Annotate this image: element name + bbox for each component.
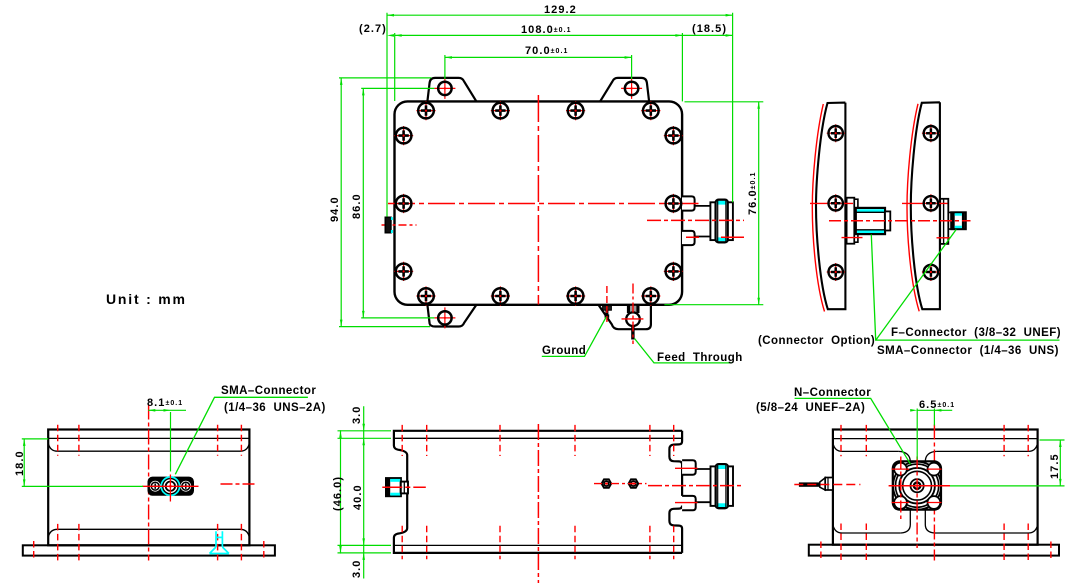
N connector (bottom view) ears [682,460,696,474]
svg-text:SMA–Connector: SMA–Connector [221,385,316,397]
flange corner bolt circles [894,463,940,509]
corner wedge fills [893,461,941,510]
F-connector option body outline [816,103,845,310]
svg-text:3.0: 3.0 [351,560,363,578]
svg-text:(18.5): (18.5) [692,23,727,35]
svg-text:(2.7): (2.7) [359,23,387,35]
hex screws [602,479,612,487]
centerline vertical [537,95,539,305]
OPTVIEWS [810,102,1060,340]
SMA pin left side [799,482,820,486]
dim 18.0 [22,410,186,486]
lid screws bottom row [416,286,435,305]
right edge with notches [669,431,682,553]
hidden screw holes top [34,425,264,561]
mounting tab bottom-left [427,305,476,327]
svg-text:(5/8–24 UNEF–2A): (5/8–24 UNEF–2A) [756,402,865,414]
N connector ear2 stub [686,236,744,238]
hidden hole lines top [402,425,674,559]
base flange [23,545,275,555]
SMA center cyan ring [161,477,179,495]
bottom view outline [394,431,682,553]
svg-text:86.0: 86.0 [351,193,363,219]
N connector centerline (bottom) [648,485,741,487]
bottom seam [833,525,1038,533]
svg-text:18.0: 18.0 [14,450,26,476]
SMA stub (left, rear of connector) [385,217,391,232]
inner top line [394,437,682,439]
svg-text:Unit : mm: Unit : mm [106,291,187,307]
inner bottom line [394,544,682,546]
mounting tab top-right [600,78,649,102]
connector crosshair [142,485,199,487]
N connector ear 1 [682,196,695,210]
body front view [48,430,249,546]
dim 6.5 [917,409,1064,486]
ground lug [603,306,612,310]
leader Feed Through [635,339,733,363]
F-connector tip [885,211,890,230]
centerline horizontal [388,203,697,205]
F-option red profile arc [812,104,824,312]
N connector ring1 [710,202,715,240]
SMA connector (bottom view) [386,478,401,496]
svg-text:(46.0): (46.0) [332,476,344,511]
hidden screw holes [821,425,1051,561]
bottom seam [48,529,249,537]
svg-text:17.5: 17.5 [1049,453,1061,479]
lid seam upper [48,437,249,439]
SMA-option screws [922,124,940,142]
SMA connector flange [940,199,948,244]
TOPVIEW [339,13,763,363]
mounting tab top-left [427,78,476,102]
svg-text:F–Connector (3/8–32 UNEF): F–Connector (3/8–32 UNEF) [891,327,1061,339]
N connector rings/barrel (bottom view) [711,466,716,506]
N connector centerline [647,219,744,221]
svg-text:N–Connector: N–Connector [794,387,871,399]
vertical centerline body [933,425,935,561]
dim 129.2 [339,13,763,327]
dims 46/40/3 [338,406,392,578]
F-option screws [827,124,845,142]
BOTTOMVIEW [338,406,742,583]
center circles [911,479,924,492]
svg-text:3.0: 3.0 [351,406,363,424]
tab hole top-right [621,78,642,99]
SMA stub centerline [382,224,417,226]
N connector ring2 [728,202,733,240]
tab hole top-left [434,78,455,99]
svg-text:94.0: 94.0 [329,196,341,222]
svg-text:Feed Through: Feed Through [657,352,743,364]
lid seam upper [833,438,1038,440]
feed through pin [631,326,634,340]
svg-text:129.2: 129.2 [544,4,577,16]
N flange connector [893,461,941,509]
plate side screws [151,482,189,490]
F-option centerline [829,220,896,222]
lid screws left column [394,126,413,145]
rib top flares [899,451,937,461]
F-connector barrel [856,208,885,234]
F-connector flange [847,198,855,244]
lid screws right column [664,126,683,145]
svg-text:(Connector Option): (Connector Option) [758,335,875,347]
concentric connector circles [893,462,941,510]
BACKVIEW [794,398,1064,560]
N connector ear1 stub [677,203,699,205]
leader SMA-connector [876,230,956,341]
leader Ground [542,317,606,357]
vertical centerline [148,405,150,561]
feed through bracket [627,306,630,313]
body back view [833,430,1038,545]
SMA-option red profile arc [907,104,919,311]
feed through insulator circle [626,312,640,326]
right centerline stub [221,483,257,485]
rib bottom [901,510,935,533]
SMA-option centerline [896,220,971,222]
mounting tab bottom-right (feed-through recess) [598,305,651,329]
SMA option body outline [911,102,940,309]
cyan stud symbol [210,531,229,553]
svg-text:SMA–Connector (1/4–36 UNS): SMA–Connector (1/4–36 UNS) [877,345,1059,357]
tab hole bottom-left [434,307,455,328]
svg-text:Ground: Ground [542,345,586,357]
SMA connector plate [148,477,195,496]
SMA connector nut [951,212,965,229]
connector crosshairs [889,485,950,487]
N connector ear 2 [682,231,695,245]
leader F-connector [871,235,1059,341]
leader N-connector [795,398,911,464]
leader SMA front [175,397,308,474]
base flange [809,545,1059,556]
enclosure body (top view) [395,101,683,304]
svg-text:(1/4–36 UNS–2A): (1/4–36 UNS–2A) [224,402,326,414]
lid screws top row [416,101,435,120]
N connector barrel with cyan seals [716,200,728,243]
FRONTVIEW [22,397,308,560]
vertical centerline [537,424,539,583]
N connector neck [695,206,711,237]
svg-text:40.0: 40.0 [352,484,364,510]
